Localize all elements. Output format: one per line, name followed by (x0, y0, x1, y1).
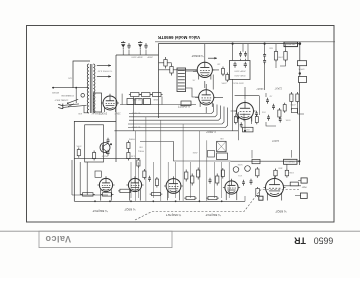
capacitor C40 (209, 178, 212, 184)
speaker jack J3 (297, 61, 306, 66)
resistor R35 cathode (129, 93, 141, 97)
capacitor C43 (242, 180, 245, 186)
wire: can bottom drop (232, 79, 234, 131)
wire: coupling drop (264, 64, 266, 91)
wire: standby feed (52, 87, 89, 89)
capacitor C6 (272, 104, 275, 110)
wire: tremolo mid rail (74, 158, 140, 160)
resistor R21 (284, 49, 287, 62)
svg-text:TREM: TREM (129, 137, 135, 139)
preamp tube V3 (235, 100, 256, 121)
svg-text:½ 6SQ7GT: ½ 6SQ7GT (92, 209, 107, 213)
svg-text:Valco Model 6650TR: Valco Model 6650TR (157, 35, 200, 40)
wire: jack leads (295, 181, 301, 196)
resistor R43 (127, 151, 130, 161)
svg-text:117VAC 60CY: 117VAC 60CY (54, 98, 68, 101)
wire: PI vertical (264, 44, 266, 52)
resistor R54 (191, 174, 194, 186)
svg-text:TO HTRS 6.3V: TO HTRS 6.3V (97, 69, 112, 71)
filter capacitor can FP (230, 61, 251, 80)
capacitor C20 electrolytic (121, 41, 125, 49)
wire: can feed drops (243, 44, 248, 61)
wire: left bottom bus (72, 194, 108, 196)
svg-text:½ 6V6GT: ½ 6V6GT (191, 54, 203, 58)
svg-text:20MF 450V: 20MF 450V (234, 74, 246, 76)
preamp tube V4 6SQ7 (97, 176, 114, 200)
resistor R11 (296, 92, 299, 104)
svg-text:INST: INST (301, 186, 307, 188)
vibrato unit box (217, 141, 227, 151)
svg-text:20MF 6V: 20MF 6V (91, 112, 100, 114)
capacitor C23 (144, 43, 147, 49)
wire: output tube cathodes (205, 81, 206, 113)
preamp tube V5 (126, 176, 143, 200)
junction dot tremolo (110, 143, 112, 145)
capacitor C7 (267, 115, 270, 121)
wire: channel drop to input (286, 165, 288, 169)
resistor R57 (184, 197, 197, 200)
wire: can feeds (233, 44, 246, 61)
transistor Q1 oscillator (100, 143, 110, 153)
wire: jack link (299, 66, 301, 77)
wire: V1-V2 link (212, 75, 214, 90)
capacitor C30 (107, 138, 110, 144)
capacitor C13 coupling (263, 58, 266, 64)
svg-text:500K: 500K (237, 163, 242, 165)
resistor R30 (164, 57, 167, 69)
resistor R44 (137, 158, 140, 168)
wire: transformer leads bottom (84, 106, 89, 113)
wire: mid bus 6 corner (140, 142, 231, 162)
output transformer T1 (177, 68, 186, 92)
wire: channel bus (231, 160, 300, 162)
wire: main bottom bus (74, 200, 245, 202)
resistor R55 (197, 168, 200, 180)
letterhead rule line (0, 230, 360, 232)
resistor R24 tone (283, 103, 286, 113)
wire: rect cluster vline (121, 94, 123, 105)
resistor R34 grid (226, 73, 229, 83)
resistor R37 cathode (151, 93, 163, 97)
resistor R40 (77, 148, 80, 158)
input label box (290, 182, 298, 186)
resistor R15 on bus (252, 159, 260, 163)
svg-text:POWER SW: POWER SW (60, 94, 73, 96)
resistor R39b row2 (143, 99, 150, 105)
svg-text:TREMOLO: TREMOLO (285, 160, 295, 162)
resistor R57a (150, 193, 163, 196)
wire: primary top (73, 61, 90, 88)
svg-text:450K: 450K (192, 151, 197, 153)
svg-text:VIB: VIB (220, 137, 224, 139)
power tube V1 6V6GT (195, 60, 214, 79)
wire: plate arrow (208, 57, 217, 59)
wire: bus 4 (128, 107, 224, 125)
rectifier tube V9 5Y3GT (101, 94, 119, 112)
capacitor C16 (244, 51, 247, 57)
wire: V3 to buses (236, 113, 244, 121)
wire: bus 5 (128, 108, 228, 128)
resistor R51 (101, 193, 114, 196)
input jack J2 (301, 193, 308, 198)
svg-text:SPKR: SPKR (298, 67, 304, 69)
wire: R20 R21 to rail (276, 44, 286, 68)
wire: heater arrow lower (97, 75, 111, 77)
resistor R50 (81, 193, 95, 196)
resistor R61 (155, 177, 158, 188)
capacitor C15 (239, 51, 242, 57)
volume pot P1 (233, 167, 239, 173)
junction dot V3 (237, 117, 239, 119)
capacitor C12 coupling (263, 52, 266, 58)
heater drop wires (131, 117, 229, 202)
svg-text:220K: 220K (221, 81, 227, 83)
tremolo footswitch box (284, 159, 298, 164)
wire: bus 1 (129, 104, 214, 114)
wire: cap leads to bus (123, 50, 146, 55)
capacitor C15b inside can (244, 62, 247, 68)
power switch S2 lever (68, 104, 74, 107)
wire: left drop 1 (71, 160, 73, 195)
wire: V3 drops (238, 112, 251, 140)
svg-text:SPEAKER: SPEAKER (285, 43, 295, 46)
wire: jack drop (299, 44, 301, 61)
AC plug (58, 104, 63, 109)
capacitor C17 (255, 111, 258, 117)
junction dot jack (299, 72, 301, 74)
resistor R31 (170, 64, 173, 76)
capacitor C22 electrolytic (138, 41, 142, 49)
Valco logo box (39, 231, 172, 247)
svg-text:100K: 100K (76, 144, 82, 146)
svg-text:20MF: 20MF (147, 56, 153, 58)
dark component input (259, 196, 263, 200)
small box left of vibrato (208, 151, 215, 158)
power transformer T2 secondary winding (93, 64, 95, 113)
wire: filter cap bus (116, 54, 159, 56)
svg-text:100K: 100K (277, 55, 283, 57)
svg-text:500K: 500K (285, 118, 290, 120)
preamp tube V6 (164, 176, 183, 200)
wire: V3 leads (231, 87, 246, 111)
svg-text:40MF 450V: 40MF 450V (131, 56, 143, 58)
svg-text:100K: 100K (288, 171, 293, 173)
svg-text:470K: 470K (290, 103, 296, 105)
resistor R58 (206, 197, 219, 200)
resistor R32 box (181, 101, 191, 106)
tone pot P2 (245, 166, 251, 172)
svg-text:TR: TR (293, 236, 305, 246)
capacitor C18 tone (279, 117, 282, 123)
resistor R41 (93, 151, 96, 161)
power transformer T2 core (89, 64, 91, 113)
wire: screen feed (159, 63, 198, 70)
svg-text:½ 6SQ7GT: ½ 6SQ7GT (205, 213, 220, 217)
junction dot channel bus (298, 160, 300, 162)
wire: trem box drop (252, 150, 292, 158)
wire: right rail (298, 82, 300, 165)
small box tremolo (95, 171, 101, 177)
wire: tone stack links (266, 93, 276, 126)
resistor R52 (118, 189, 132, 192)
wire: AC cord (63, 104, 79, 106)
wire: upper B+ bus (155, 41, 335, 43)
capacitor C42 (148, 176, 151, 182)
junction dot pi (264, 43, 266, 45)
svg-text:B+ 250V: B+ 250V (131, 125, 140, 127)
power tube V2 6V6GT (197, 88, 216, 107)
wire: heater arrow upper (97, 64, 111, 66)
svg-text:½ 6SQ7: ½ 6SQ7 (124, 208, 135, 212)
resistor R33 grid (222, 67, 225, 77)
tremolo inner box (85, 125, 104, 162)
junction dots bottom bus (94, 200, 223, 202)
vibrato lower box (217, 153, 228, 160)
wire: bus 2 (129, 105, 217, 117)
wire: bottom bus to dashed (244, 196, 246, 201)
svg-text:12AX7: 12AX7 (256, 87, 264, 90)
wire: to input jacks (284, 185, 302, 187)
svg-text:50MF: 50MF (153, 98, 159, 100)
power switch S1 lever (68, 99, 79, 103)
wire: cathode bus (120, 104, 196, 106)
svg-text:STDBY: STDBY (51, 91, 59, 93)
svg-text:56K: 56K (269, 46, 273, 48)
resistor R53 (185, 170, 188, 182)
wire: cap bus drop (115, 55, 117, 162)
capacitor C15a inside can (233, 62, 236, 68)
fuse F1 (81, 94, 85, 98)
svg-text:½ 6V6GT: ½ 6V6GT (178, 104, 190, 108)
resistor R60 (143, 169, 146, 180)
speaker jack J4 (298, 77, 306, 83)
wire: right cluster links (291, 104, 304, 115)
wire: cathode row drop (133, 97, 135, 131)
svg-text:12AX7: 12AX7 (271, 139, 279, 142)
preamp tube V7 (223, 179, 240, 200)
resistor R20 (274, 49, 277, 62)
svg-text:¼ 6SQ7: ¼ 6SQ7 (206, 130, 216, 134)
resistor R62 (221, 168, 224, 179)
wire: V1 plate to rail (204, 44, 206, 61)
wire: tremolo enclosure (74, 121, 116, 201)
border frame of schematic sheet (27, 26, 335, 223)
wire: bus 6 long (114, 130, 238, 132)
speaker label box (284, 42, 298, 47)
junction dot output bus (232, 43, 234, 45)
small box tone (292, 109, 298, 113)
wire: V1 pin stubs (206, 70, 223, 97)
svg-text:FREQ: FREQ (138, 149, 144, 151)
capacitor C41 (250, 179, 253, 185)
wire: V3 top box (235, 96, 260, 115)
resistor R17 (274, 169, 277, 178)
capacitor C5 (266, 98, 269, 104)
resistor R16 (285, 169, 288, 178)
wire: bus 3 (129, 106, 221, 121)
svg-text:Valco: Valco (45, 234, 71, 244)
svg-text:6.3V: 6.3V (130, 154, 135, 156)
wire: cathode row drop 2 (161, 97, 163, 105)
junction dot V3 bus (244, 130, 246, 132)
resistor R10 (290, 92, 293, 104)
resistor R23 under V3 (255, 115, 258, 125)
wire: left drop 2 (79, 162, 81, 195)
resistor R56 (216, 174, 219, 186)
junction dot at output node (299, 42, 302, 45)
svg-text:2N109: 2N109 (101, 154, 108, 156)
resistor R12 (278, 108, 281, 119)
resistor R42 (127, 141, 130, 151)
svg-text:450V ELEC: 450V ELEC (232, 81, 244, 83)
wire: grid returns (193, 71, 199, 97)
svg-text:1M: 1M (217, 62, 220, 64)
wire: left drop 3 (86, 162, 88, 195)
svg-text:40K: 40K (78, 112, 82, 114)
svg-text:½ 6SQ7: ½ 6SQ7 (275, 209, 286, 213)
capacitor C14 (240, 122, 243, 128)
input jack J1 (301, 178, 307, 183)
wire: primary drop (75, 88, 77, 103)
resistor R22 under V3 (234, 115, 237, 125)
power transformer T2 primary winding (87, 64, 89, 113)
shield dashed line (135, 190, 299, 221)
resistor R59 (256, 167, 259, 178)
capacitor C31 (107, 150, 110, 156)
HV secondary bracket (94, 93, 102, 112)
svg-text:B+ 325V: B+ 325V (131, 111, 140, 113)
resistor R63 (256, 187, 260, 197)
svg-text:6650: 6650 (314, 236, 334, 246)
capacitor C21 (127, 43, 130, 49)
preamp tube V8 (264, 176, 286, 200)
svg-text:20MF 450V: 20MF 450V (234, 70, 246, 72)
wire: main top rail with corner (159, 44, 301, 118)
bus component box (243, 127, 254, 132)
resistor R38 row2 (127, 99, 134, 105)
resistor R39 row2 (135, 99, 142, 105)
svg-text:½ 6SQ7GT: ½ 6SQ7GT (166, 213, 181, 217)
svg-text:20MF: 20MF (114, 112, 120, 114)
resistor R36 cathode (140, 93, 152, 97)
svg-text:12AX7: 12AX7 (274, 87, 282, 90)
wire: OT primary leads (186, 70, 197, 72)
